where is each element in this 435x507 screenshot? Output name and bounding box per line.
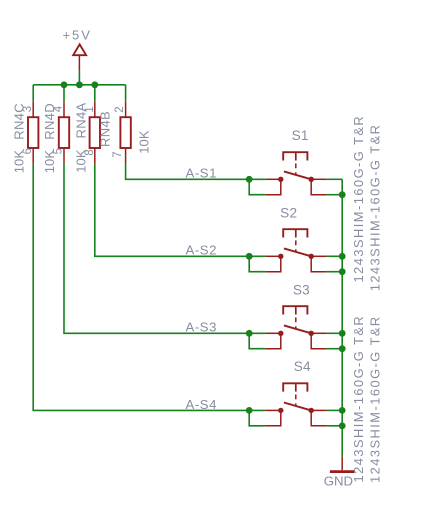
switch S1 bbox=[265, 128, 326, 195]
wire net A-S3 bbox=[64, 163, 249, 333]
resistor RN4A 10K bbox=[90, 102, 100, 164]
junction dot bus at S4 top pin bbox=[339, 407, 346, 414]
junction dot left of S3 bbox=[246, 330, 253, 337]
svg-text:6: 6 bbox=[22, 148, 34, 154]
junction dot bus at S4 bottom pin bbox=[339, 422, 346, 429]
junction dot bus at S2 bottom pin bbox=[339, 268, 346, 275]
junction dot bus left bbox=[61, 81, 68, 88]
svg-text:1243SHIM-160G-G T&R: 1243SHIM-160G-G T&R bbox=[351, 115, 366, 283]
junction dot bus at S3 top pin bbox=[339, 330, 346, 337]
wire left pins of S1 bbox=[249, 178, 265, 180]
wire right pins of S2 to bus bbox=[327, 255, 343, 257]
wire net A-S4 bbox=[33, 163, 249, 410]
svg-text:A-S3: A-S3 bbox=[185, 320, 217, 335]
svg-text:1243SHIM-160G-G T&R: 1243SHIM-160G-G T&R bbox=[368, 124, 383, 292]
switch S3 bbox=[265, 283, 326, 349]
svg-text:1: 1 bbox=[84, 106, 96, 112]
junction dot left of S2 bbox=[246, 253, 253, 260]
wire right bus to GND bbox=[341, 179, 343, 425]
svg-text:S1: S1 bbox=[292, 128, 309, 143]
svg-text:8: 8 bbox=[84, 149, 96, 155]
wire +5V to bus bbox=[78, 71, 80, 85]
wire right pins of S1 to bus bbox=[327, 178, 343, 180]
svg-text:A-S1: A-S1 bbox=[185, 166, 217, 181]
junction dot bus center bbox=[76, 81, 83, 88]
ground GND bbox=[324, 457, 355, 489]
svg-text:A-S4: A-S4 bbox=[185, 397, 217, 412]
wire left pins of S2 bbox=[249, 255, 265, 257]
wire right pins of S4 to bus bbox=[327, 409, 343, 411]
svg-text:GND: GND bbox=[324, 474, 353, 489]
svg-text:+5V: +5V bbox=[62, 27, 92, 42]
wire bus to resistor RN4C bbox=[32, 85, 34, 102]
junction dot bus right bbox=[91, 81, 98, 88]
wire bus to GND bbox=[341, 426, 343, 457]
switch S4 bbox=[265, 359, 326, 426]
wire left pins of S3 bbox=[249, 332, 265, 334]
svg-text:1243SHIM-160G-G T&R: 1243SHIM-160G-G T&R bbox=[367, 315, 382, 483]
resistor RN4D 10K bbox=[59, 102, 69, 164]
svg-text:2: 2 bbox=[114, 106, 126, 112]
svg-text:10K: 10K bbox=[137, 130, 152, 154]
svg-text:S3: S3 bbox=[293, 283, 310, 298]
junction dot bus at S1 bottom pin bbox=[339, 191, 346, 198]
junction dot left of S4 bbox=[246, 407, 253, 414]
+5V supply symbol bbox=[62, 27, 92, 70]
wire bus to resistor RN4D bbox=[63, 85, 65, 102]
svg-text:S2: S2 bbox=[280, 206, 297, 221]
junction dot bus at S2 top pin bbox=[339, 253, 346, 260]
svg-text:5: 5 bbox=[53, 148, 65, 154]
wire bus to resistor RN4B bbox=[125, 85, 127, 102]
wire net A-S1 bbox=[126, 163, 250, 179]
svg-text:4: 4 bbox=[53, 105, 65, 112]
wire bus to resistor RN4A bbox=[94, 85, 96, 102]
resistor RN4B 10K bbox=[120, 102, 130, 164]
wire right pins of S3 to bus bbox=[327, 332, 343, 334]
wire left pins of S4 bbox=[249, 409, 265, 411]
svg-text:A-S2: A-S2 bbox=[185, 243, 217, 258]
resistor RN4C 10K bbox=[28, 102, 38, 164]
junction dot left of S1 bbox=[246, 176, 253, 183]
svg-text:3: 3 bbox=[22, 106, 34, 112]
junction dot bus at S3 bottom pin bbox=[339, 345, 346, 352]
wire net A-S2 bbox=[95, 163, 249, 256]
svg-text:7: 7 bbox=[112, 151, 124, 157]
svg-text:1243SHIM-160G-G T&R: 1243SHIM-160G-G T&R bbox=[351, 315, 366, 483]
wire top bus bbox=[33, 84, 125, 86]
switch S2 bbox=[265, 206, 326, 272]
svg-text:RN4B: RN4B bbox=[98, 111, 113, 147]
svg-text:S4: S4 bbox=[294, 359, 311, 374]
